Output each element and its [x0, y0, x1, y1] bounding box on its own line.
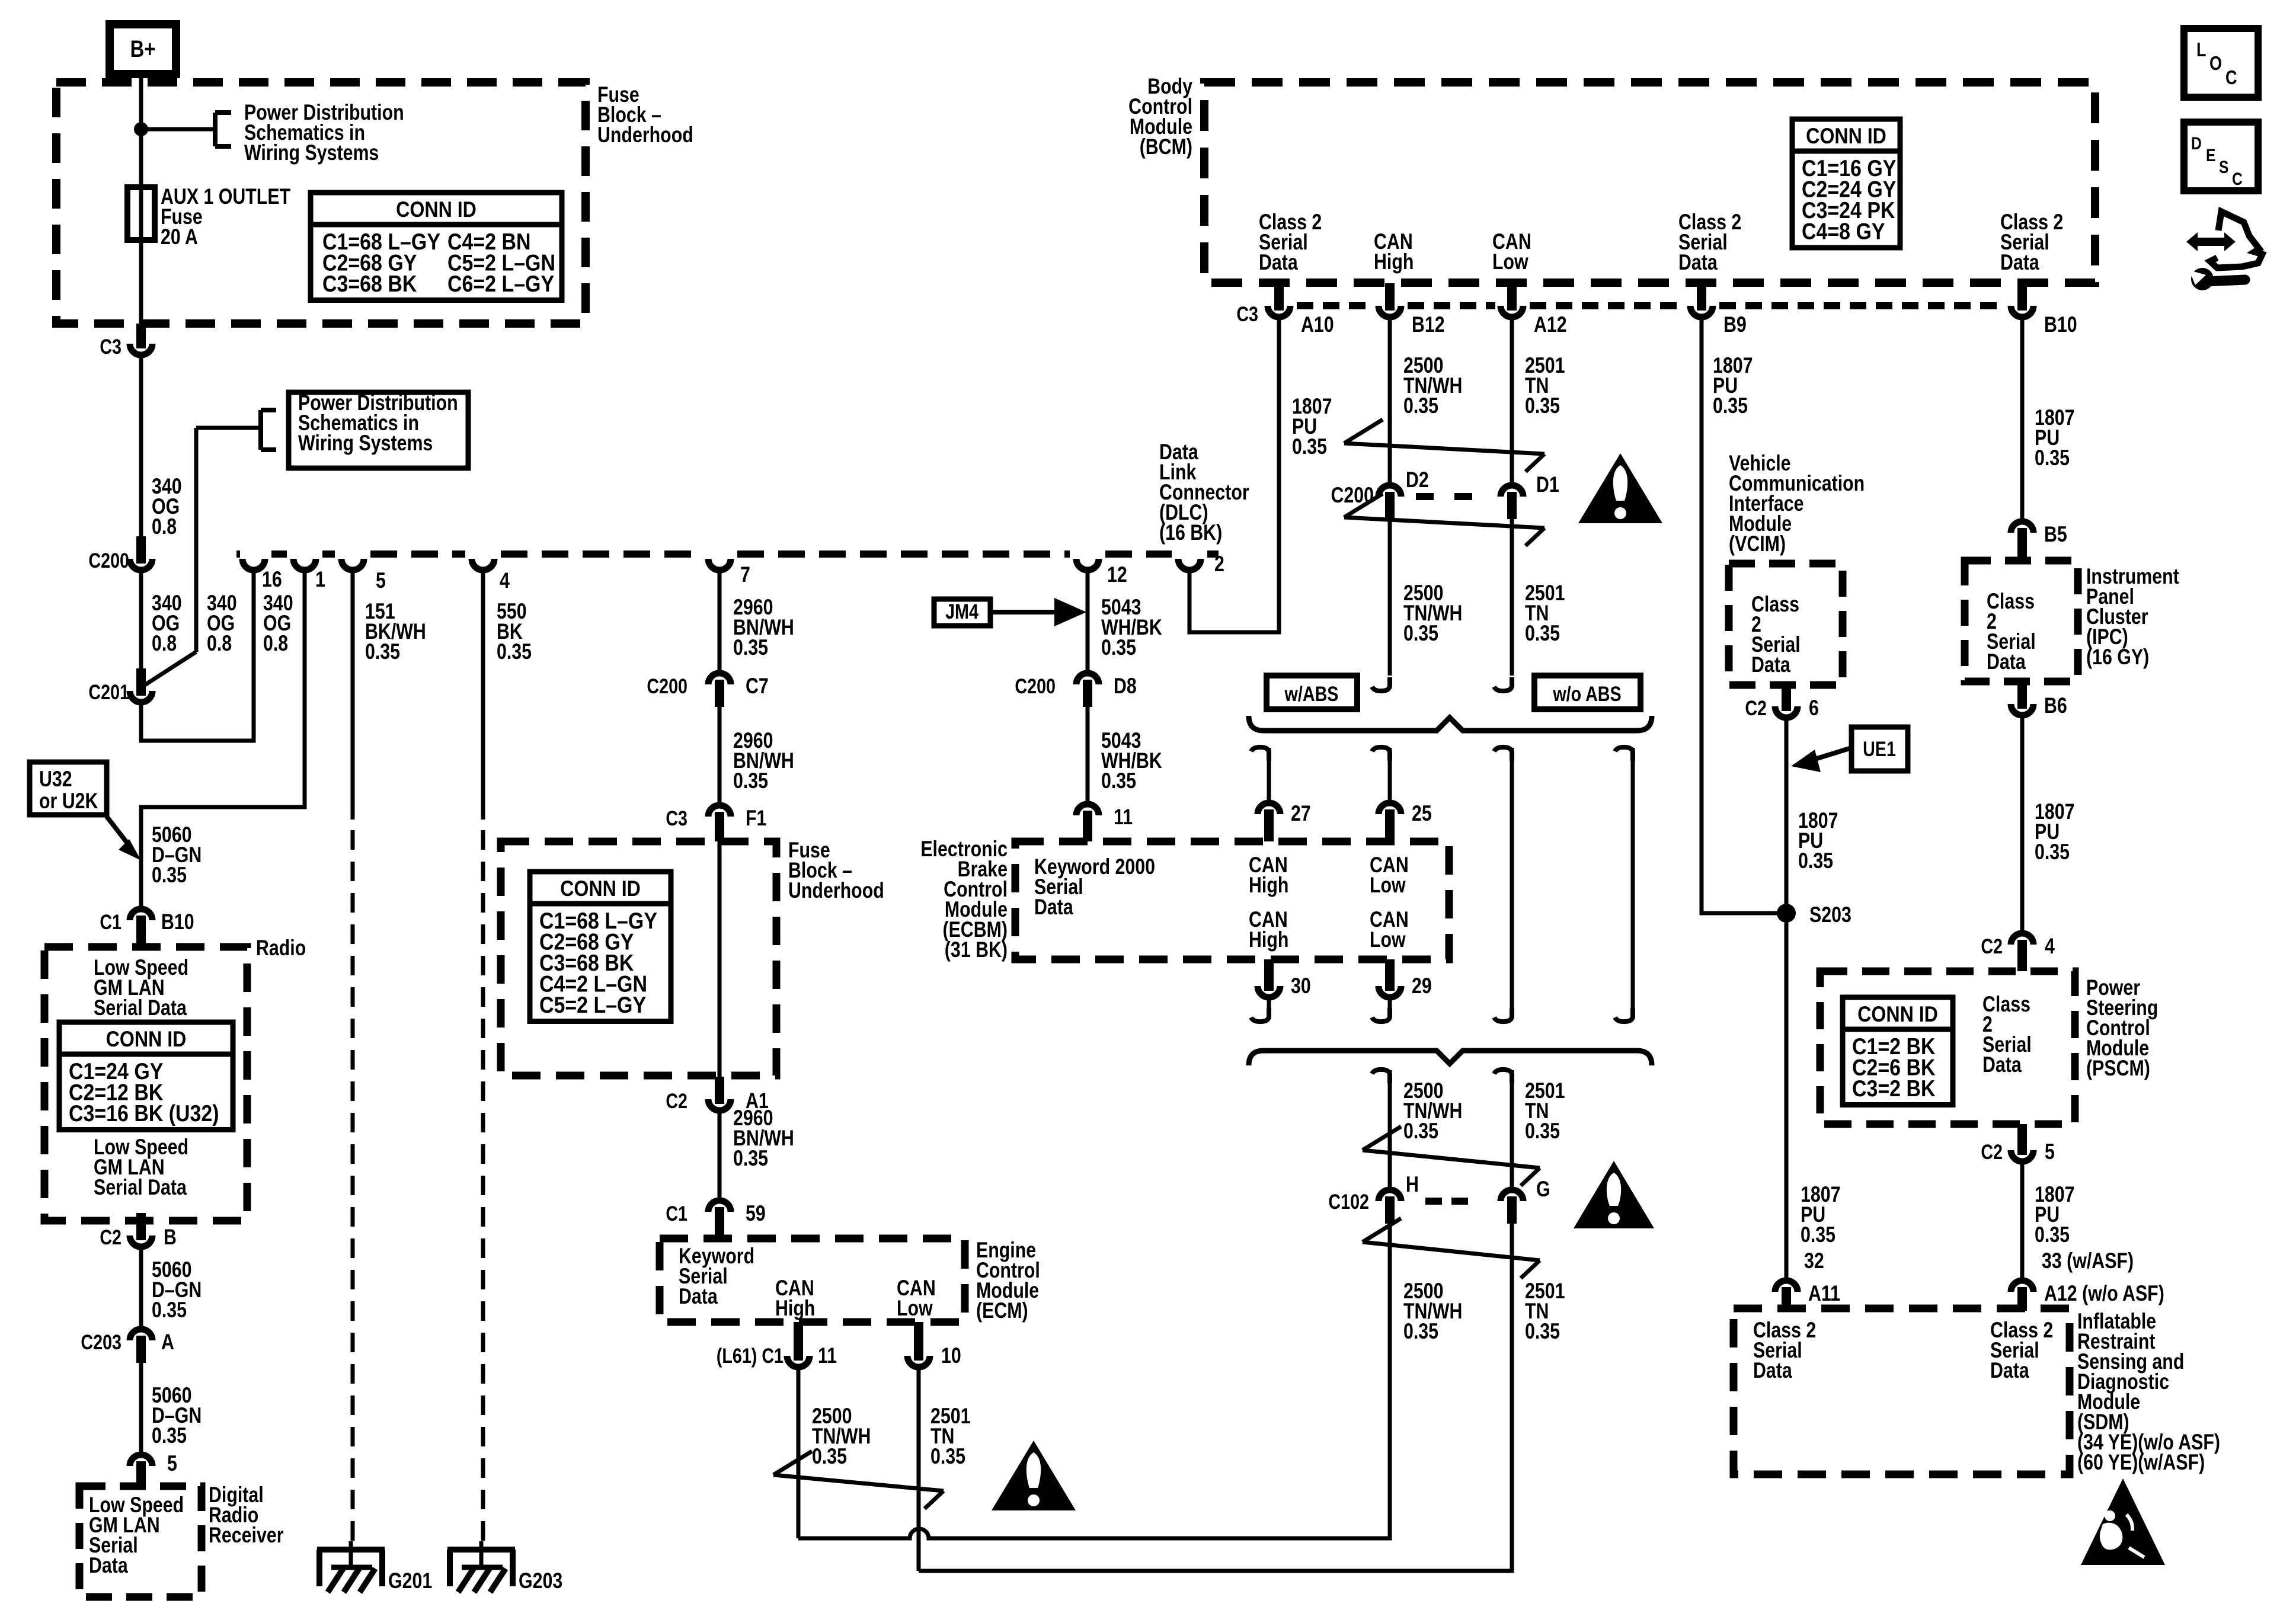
wire C201 elbow to splice pin16: [141, 573, 254, 741]
svg-text:C200: C200: [647, 674, 687, 697]
connector PSCM C2 4: [1981, 933, 2055, 971]
twisted pair symbol ECM: [773, 1451, 944, 1509]
icon service arrow wrench: [2186, 212, 2262, 290]
svg-text:H: H: [1406, 1172, 1419, 1197]
connector C1 B10 radio: [100, 909, 194, 947]
svg-text:Receiver: Receiver: [209, 1523, 283, 1548]
wire 1807 PU S203 to SDM A11: [1786, 922, 1840, 1278]
svg-text:A10: A10: [1301, 312, 1334, 337]
module box Fuse Block - Underhood 2: [501, 838, 884, 1076]
svg-text:S203: S203: [1809, 902, 1851, 927]
svg-text:Data: Data: [1678, 250, 1718, 275]
svg-text:0.35: 0.35: [1801, 1222, 1835, 1247]
svg-text:C2: C2: [1745, 696, 1767, 719]
connector VCIM C2 6: [1745, 685, 1819, 721]
warning triangle ECM: [992, 1441, 1076, 1510]
connector C102 G: [1501, 1177, 1550, 1224]
connector C200 left: [88, 536, 152, 572]
svg-text:B6: B6: [2044, 693, 2067, 718]
svg-text:Low: Low: [897, 1296, 933, 1321]
bus connector cup 2 DLC: [1178, 552, 1224, 577]
wire 340 OG C3 to C200: [141, 358, 182, 540]
svg-text:59: 59: [746, 1201, 766, 1226]
svg-text:B5: B5: [2044, 522, 2067, 547]
ECM text keyword serial data: [679, 1244, 754, 1309]
svg-text:0.35: 0.35: [1101, 769, 1136, 793]
callout UE1: [1791, 727, 1908, 772]
svg-text:Wiring Systems: Wiring Systems: [298, 431, 433, 456]
svg-text:D1: D1: [1536, 472, 1559, 497]
svg-text:UE1: UE1: [1863, 737, 1896, 760]
connector C1 59 ECM: [666, 1201, 765, 1238]
svg-text:CONN ID: CONN ID: [1857, 1003, 1938, 1027]
wire ECM 10 to C102 G: [919, 1224, 1512, 1571]
ECBM text CAN High 1: [1249, 853, 1288, 898]
connector ECBM 25: [1379, 803, 1401, 841]
module box Electronic Brake Control Module ECBM: [920, 837, 1449, 962]
ECBM text keyword 2000: [1034, 854, 1155, 920]
svg-text:12: 12: [1107, 562, 1127, 587]
label Data Link Connector DLC: [1159, 440, 1249, 545]
svg-text:0.35: 0.35: [733, 635, 768, 660]
svg-text:7: 7: [740, 562, 750, 587]
svg-text:0.8: 0.8: [263, 631, 288, 656]
bus connector cup 12: [1076, 559, 1127, 587]
BCM text class 2 serial data B9: [1678, 210, 1741, 275]
svg-text:0.35: 0.35: [1525, 621, 1560, 646]
svg-text:1: 1: [315, 567, 325, 592]
wire 2500 to C102 H: [1372, 1070, 1462, 1187]
svg-text:Data: Data: [1990, 1358, 2030, 1383]
callout w/ABS: [1267, 676, 1357, 709]
svg-text:C3=16 BK (U32): C3=16 BK (U32): [69, 1100, 219, 1126]
wire wABS CAN Low to ECBM 25: [1372, 747, 1432, 826]
ECM text CAN Low: [897, 1276, 936, 1321]
wire 2960 BN/WH bus to C200 C7: [720, 573, 794, 670]
svg-text:C200: C200: [88, 549, 129, 572]
wire 2500 TN/WH ECM 11: [798, 1370, 871, 1538]
junction node to power distribution note: [134, 122, 215, 136]
connector PSCM C2 5: [1981, 1124, 2055, 1164]
wire 5060 D-GN C203 to receiver: [141, 1363, 202, 1452]
bus connector cup 1: [293, 559, 325, 592]
ground G201: [317, 1541, 432, 1593]
svg-text:0.35: 0.35: [2035, 1222, 2070, 1247]
svg-text:(L61) C1: (L61) C1: [717, 1344, 784, 1367]
wire ECBM 29 to break: [1372, 1000, 1390, 1022]
callout w/o ABS: [1534, 676, 1641, 709]
svg-text:U32: U32: [39, 767, 72, 792]
svg-text:0.35: 0.35: [733, 769, 768, 793]
svg-text:w/o ABS: w/o ABS: [1552, 682, 1621, 705]
airbag warning triangle: [2081, 1478, 2165, 1565]
BCM connector line C3 dashed: [1236, 302, 2006, 325]
module box Power Steering Control Module PSCM: [1820, 971, 2158, 1124]
module box Radio: [44, 936, 306, 1221]
svg-text:D2: D2: [1406, 468, 1429, 492]
callout JM4: [934, 598, 1086, 626]
svg-text:0.35: 0.35: [1403, 1319, 1438, 1344]
wire label 2501 below C102: [1525, 1279, 1565, 1344]
svg-text:S: S: [2219, 157, 2228, 177]
svg-text:C3: C3: [1236, 302, 1258, 325]
svg-text:CONN ID: CONN ID: [1806, 124, 1886, 149]
svg-text:0.35: 0.35: [1525, 1119, 1560, 1144]
bus connector cup 5: [341, 559, 386, 593]
module box VCIM: [1729, 564, 1843, 685]
module box Instrument Panel Cluster IPC: [1965, 561, 2179, 681]
connector line C102 dashed: [1328, 1190, 1476, 1213]
svg-text:C: C: [2232, 169, 2243, 189]
conn id table PSCM: [1843, 997, 1953, 1105]
twisted pair below C102: [1363, 1218, 1540, 1278]
connector pin 10: [907, 1322, 961, 1368]
svg-text:or U2K: or U2K: [39, 789, 98, 814]
svg-text:JM4: JM4: [945, 600, 978, 623]
wire DLC pin2 to BCM A10: [1189, 320, 1332, 632]
svg-text:0.35: 0.35: [1403, 1119, 1438, 1144]
svg-text:6: 6: [1809, 696, 1819, 721]
svg-text:0.35: 0.35: [152, 863, 187, 888]
wire 5043 WH/BK bus to D8: [1088, 573, 1162, 670]
svg-text:27: 27: [1291, 801, 1311, 826]
BCM text CAN High: [1374, 229, 1414, 274]
svg-text:11: 11: [1114, 805, 1133, 830]
brace lower: [1249, 1051, 1652, 1065]
wire 340 OG bracket2 down: [141, 428, 261, 687]
conn id table BCM: [1792, 119, 1900, 248]
wire 2501 TN A12 to D1: [1512, 320, 1565, 482]
module box Engine Control Module ECM: [660, 1238, 1040, 1323]
svg-text:Data: Data: [679, 1284, 718, 1309]
svg-text:Low: Low: [1492, 249, 1528, 274]
svg-text:20 A: 20 A: [161, 225, 198, 249]
ECBM text CAN High 2: [1249, 907, 1288, 952]
wire 1807 PU B6 to PSCM 4: [2022, 718, 2074, 930]
svg-text:32: 32: [1804, 1249, 1824, 1273]
wire ECM 11 to C102 H with hop: [798, 1224, 1390, 1538]
svg-text:G203: G203: [519, 1569, 562, 1593]
svg-text:0.35: 0.35: [1713, 393, 1748, 418]
BCM text class 2 serial data B10: [2000, 210, 2063, 275]
wire label 340 OG pin16: [263, 591, 293, 656]
svg-text:C2: C2: [666, 1089, 687, 1112]
svg-text:High: High: [1249, 873, 1288, 898]
wire 5060 D-GN radio to C203: [141, 1250, 202, 1326]
connector SDM A12: [2011, 1281, 2164, 1311]
svg-text:0.35: 0.35: [1525, 393, 1560, 418]
connector ECBM 29: [1379, 959, 1432, 998]
connector L61 C1 pin 11: [717, 1322, 837, 1368]
wire 2500 D2 to break: [1372, 519, 1462, 691]
module box Digital Radio Receiver: [79, 1483, 283, 1597]
svg-text:C5=2 L–GY: C5=2 L–GY: [539, 992, 646, 1018]
connector BCM B9: [1690, 283, 1747, 337]
svg-text:(16 BK): (16 BK): [1159, 520, 1222, 545]
svg-text:Serial Data: Serial Data: [94, 1175, 187, 1200]
connector SDM A11: [1775, 1281, 1840, 1311]
BCM text CAN Low: [1492, 229, 1531, 274]
connector C200 D1: [1501, 472, 1559, 519]
svg-text:0.35: 0.35: [930, 1444, 965, 1469]
connector BCM B12: [1379, 283, 1445, 337]
label Vehicle Communication Interface Module VCIM: [1729, 451, 1865, 556]
wire through fuse block 2: [718, 839, 722, 1078]
svg-text:A12 (w/o ASF): A12 (w/o ASF): [2044, 1281, 2164, 1306]
svg-text:Underhood: Underhood: [597, 123, 693, 148]
svg-text:L: L: [2196, 40, 2207, 61]
radio text low speed gm lan 2: [94, 1135, 188, 1200]
callout U32 or U2K: [30, 762, 141, 860]
svg-text:B+: B+: [130, 36, 156, 62]
svg-text:High: High: [775, 1296, 815, 1321]
svg-text:C2: C2: [1981, 1140, 2003, 1163]
svg-text:0.35: 0.35: [2035, 446, 2070, 470]
connector BCM A10: [1268, 283, 1334, 337]
svg-text:D: D: [2191, 133, 2202, 153]
svg-text:0.35: 0.35: [2035, 840, 2070, 865]
svg-text:11: 11: [818, 1343, 837, 1368]
svg-text:High: High: [1374, 249, 1414, 274]
wire label 2500 below C102: [1403, 1279, 1462, 1344]
svg-text:5: 5: [167, 1451, 177, 1476]
svg-text:E: E: [2206, 145, 2215, 165]
svg-text:Radio: Radio: [256, 936, 306, 961]
ECBM text CAN Low 2: [1370, 907, 1409, 952]
svg-text:CONN ID: CONN ID: [106, 1028, 187, 1052]
svg-text:C7: C7: [746, 674, 769, 699]
svg-text:A12: A12: [1534, 312, 1567, 337]
twisted pair below C200 D2 D1: [1344, 494, 1544, 546]
svg-text:C102: C102: [1328, 1190, 1369, 1213]
svg-text:B10: B10: [2044, 312, 2077, 337]
svg-text:0.8: 0.8: [152, 631, 177, 656]
svg-text:4: 4: [2045, 934, 2055, 959]
connector IPC B5: [2011, 521, 2067, 561]
svg-text:D8: D8: [1114, 674, 1137, 699]
conn id table radio: [59, 1022, 233, 1130]
BCM text class 2 serial data A10: [1259, 210, 1322, 275]
svg-text:(60 YE)(w/ASF): (60 YE)(w/ASF): [2077, 1450, 2205, 1475]
warning triangle BCM CAN: [1578, 453, 1662, 523]
wire 2500 TN/WH B12 to D2: [1390, 320, 1462, 482]
svg-text:B12: B12: [1412, 312, 1445, 337]
svg-text:B9: B9: [1723, 312, 1747, 337]
conn id table fuse block underhood: [311, 193, 562, 300]
fuse AUX 1 OUTLET 20 A: [127, 184, 290, 249]
svg-text:C3=68 BK: C3=68 BK: [322, 271, 417, 297]
wire 550 BK ground G203: [483, 573, 532, 1541]
wire 1807 PU VCIM to S203: [1786, 721, 1838, 904]
svg-text:0.35: 0.35: [812, 1444, 847, 1469]
conn id table fuse block 2: [530, 872, 671, 1022]
svg-text:0.8: 0.8: [152, 514, 177, 539]
svg-text:0.8: 0.8: [207, 631, 232, 656]
svg-text:33 (w/ASF): 33 (w/ASF): [2042, 1249, 2134, 1273]
svg-text:30: 30: [1291, 974, 1311, 998]
twisted pair above C200 D2 D1: [1344, 420, 1544, 472]
svg-text:C3=2 BK: C3=2 BK: [1852, 1076, 1936, 1102]
svg-text:C201: C201: [88, 680, 129, 703]
svg-text:(PSCM): (PSCM): [2086, 1056, 2150, 1081]
wire 2501 TN ECM 10: [919, 1370, 970, 1571]
battery feed terminal B+: [110, 24, 176, 74]
connector C203 A: [81, 1329, 174, 1363]
connector IPC B6: [2011, 681, 2067, 718]
module box Body Control Module BCM: [1128, 74, 2095, 283]
wire 1807 PU B10 to B5: [2022, 320, 2074, 518]
svg-text:CONN ID: CONN ID: [396, 198, 477, 222]
ECM text CAN High: [775, 1276, 815, 1321]
svg-text:CONN ID: CONN ID: [560, 877, 641, 901]
svg-text:0.35: 0.35: [152, 1423, 187, 1448]
connector C102 H: [1379, 1172, 1419, 1224]
wire 151 BK/WH ground G201: [353, 573, 426, 1541]
svg-text:25: 25: [1412, 801, 1432, 826]
wire 1807 PU B9 to S203: [1702, 320, 1779, 913]
svg-text:O: O: [2209, 53, 2222, 75]
svg-text:C: C: [2225, 68, 2237, 89]
svg-text:F1: F1: [746, 806, 766, 831]
connector BCM B10: [2011, 283, 2077, 337]
connector pin 5 digital radio receiver: [130, 1451, 177, 1489]
svg-text:Data: Data: [2000, 250, 2040, 275]
connector C2 A1: [666, 1077, 768, 1113]
wire woABS CAN High bypass: [1494, 747, 1512, 1022]
svg-text:16: 16: [262, 567, 282, 592]
connector C200 D2: [1379, 468, 1429, 519]
wire 2501 D1 to break: [1494, 519, 1565, 691]
module box Inflatable Restraint SDM: [1734, 1308, 2220, 1475]
wire 2960 BN/WH A1 to 59: [720, 1106, 794, 1198]
svg-text:0.35: 0.35: [152, 1298, 187, 1323]
wire 2960 BN/WH C7 to F1: [720, 707, 794, 802]
bracket power distribution note 2 boxed: [261, 391, 468, 468]
warning triangle C102: [1574, 1161, 1654, 1228]
svg-text:G201: G201: [388, 1569, 432, 1593]
svg-text:Data: Data: [1034, 895, 1074, 920]
brace upper: [1249, 716, 1652, 731]
icon LOC box: [2184, 28, 2258, 97]
svg-text:5: 5: [2045, 1140, 2055, 1164]
svg-text:10: 10: [941, 1343, 961, 1368]
svg-text:(VCIM): (VCIM): [1729, 532, 1786, 556]
svg-text:Data: Data: [1753, 1358, 1793, 1383]
svg-text:C200: C200: [1015, 674, 1056, 697]
svg-text:4: 4: [500, 568, 510, 593]
bus connector cup 16: [242, 559, 282, 592]
wire ECBM 30 to break: [1251, 1000, 1269, 1022]
svg-text:0.35: 0.35: [1292, 434, 1327, 459]
svg-text:w/ABS: w/ABS: [1284, 682, 1339, 705]
svg-text:Wiring Systems: Wiring Systems: [244, 140, 379, 165]
wire fuse to C3: [139, 240, 143, 324]
bus connector cup 4: [472, 559, 510, 593]
svg-text:C203: C203: [81, 1330, 121, 1353]
svg-text:C6=2 L–GY: C6=2 L–GY: [447, 271, 554, 297]
connector C200 C7: [647, 673, 768, 707]
connector BCM A12: [1501, 283, 1567, 337]
svg-text:C1: C1: [666, 1202, 687, 1225]
wire 1807 PU PSCM to SDM A12: [2022, 1164, 2134, 1278]
bus connector cup 7: [708, 559, 750, 587]
svg-text:High: High: [1249, 927, 1288, 952]
svg-text:G: G: [1536, 1177, 1550, 1202]
ground G203: [447, 1541, 562, 1593]
svg-text:Data: Data: [1259, 250, 1299, 275]
connector C200 D8: [1015, 673, 1136, 707]
svg-text:(31 BK): (31 BK): [945, 937, 1008, 962]
svg-text:C3: C3: [666, 806, 687, 830]
svg-text:0.35: 0.35: [1798, 849, 1833, 873]
connector C3 F1 fuse block: [666, 805, 766, 841]
svg-text:Low: Low: [1370, 927, 1406, 952]
harness bus dashed line: [236, 550, 1219, 558]
connector ECBM 30: [1258, 959, 1311, 998]
connector C201: [88, 668, 152, 704]
wire 340 OG C200 to C201: [141, 573, 182, 673]
svg-text:C2: C2: [100, 1225, 121, 1249]
svg-text:(ECM): (ECM): [976, 1298, 1028, 1323]
svg-text:0.35: 0.35: [1403, 621, 1438, 646]
svg-text:2: 2: [1214, 552, 1224, 577]
svg-text:A11: A11: [1808, 1281, 1840, 1306]
bracket power distribution note 1: [215, 100, 404, 165]
svg-text:Serial Data: Serial Data: [94, 996, 187, 1020]
svg-text:Underhood: Underhood: [788, 878, 884, 903]
splice S203: [1777, 902, 1851, 927]
connector ECBM pin 11 keyword: [1076, 804, 1133, 841]
svg-text:C1: C1: [100, 910, 121, 933]
connector ECBM 27: [1258, 803, 1280, 841]
wire B+ to fuse: [139, 74, 143, 187]
ECBM text CAN Low 1: [1370, 853, 1409, 898]
svg-text:Data: Data: [1982, 1052, 2022, 1077]
svg-text:C2: C2: [1981, 934, 2003, 958]
svg-text:Data: Data: [89, 1553, 129, 1578]
svg-text:0.35: 0.35: [733, 1146, 768, 1171]
PSCM text class 2 serial data: [1982, 992, 2032, 1077]
svg-text:(16 GY): (16 GY): [2086, 645, 2149, 670]
svg-text:0.35: 0.35: [497, 639, 532, 664]
svg-text:B: B: [164, 1225, 177, 1250]
twisted pair above C102: [1363, 1126, 1540, 1186]
svg-text:Low: Low: [1370, 873, 1406, 898]
wire pin1 to radio B10: [141, 573, 305, 906]
icon DESC box: [2184, 122, 2258, 191]
connector C3 fuse block: [100, 324, 152, 359]
svg-text:0.35: 0.35: [365, 639, 400, 664]
connector line C200 D2 D1 dashed: [1331, 483, 1474, 508]
svg-text:Data: Data: [1751, 652, 1791, 677]
svg-text:C3: C3: [100, 335, 121, 358]
svg-text:0.35: 0.35: [1101, 635, 1136, 660]
svg-text:0.35: 0.35: [1403, 393, 1438, 418]
connector C2 B radio: [100, 1213, 177, 1250]
svg-text:Data: Data: [1987, 649, 2026, 674]
wire 5043 WH/BK D8 to ECBM 11: [1088, 707, 1162, 801]
svg-text:A: A: [161, 1330, 174, 1355]
radio text low speed gm lan 1: [94, 955, 188, 1020]
svg-text:(BCM): (BCM): [1140, 135, 1192, 159]
wire wABS CAN High to ECBM 27: [1251, 747, 1311, 826]
svg-text:5: 5: [376, 568, 386, 593]
wire woABS CAN Low bypass: [1615, 747, 1633, 1022]
svg-text:29: 29: [1412, 974, 1432, 998]
svg-text:0.35: 0.35: [1525, 1319, 1560, 1344]
svg-text:B10: B10: [161, 910, 194, 934]
module box Fuse Block - Underhood: [56, 82, 693, 324]
